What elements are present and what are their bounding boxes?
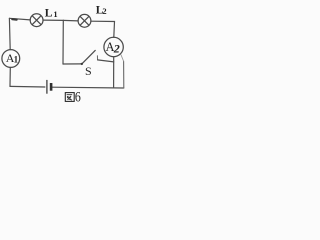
lamp L2	[78, 14, 91, 27]
ammeter A1	[2, 50, 20, 68]
svg-text:L: L	[45, 7, 53, 19]
switch S blade	[82, 50, 95, 64]
lamp L1	[30, 14, 43, 27]
svg-text:S: S	[85, 64, 92, 78]
wire node vertical to switch	[62, 20, 64, 64]
figure label 图6	[65, 93, 74, 102]
svg-text:2: 2	[102, 6, 106, 16]
wire faint A2 to right edge	[121, 55, 124, 61]
ammeter A2	[104, 37, 123, 56]
wire bottom left to battery	[10, 85, 45, 88]
wire top-left horizontal	[9, 18, 30, 20]
svg-text:6: 6	[75, 88, 81, 104]
switch right contact tick	[96, 56, 98, 60]
svg-text:1: 1	[53, 9, 57, 19]
battery long plate	[46, 80, 48, 94]
wire node to L2	[63, 19, 78, 22]
wire left vertical upper	[8, 18, 11, 49]
battery cell	[47, 80, 51, 94]
switch pivot dot	[81, 63, 83, 65]
wire left vertical lower	[9, 68, 11, 87]
wire switch right segment to A2 lead	[98, 60, 114, 62]
wire L2 to top-right corner	[91, 21, 115, 37]
junction blob top-left	[12, 18, 16, 21]
wire A2 bottom vertical	[113, 57, 115, 88]
wire switch left segment	[63, 63, 82, 65]
wire right edge vertical	[123, 61, 125, 88]
battery short plate	[50, 83, 53, 91]
wire battery to bottom-right corner	[52, 86, 123, 89]
svg-text:1: 1	[14, 54, 19, 64]
wire L1 to node	[43, 19, 63, 21]
svg-text:2: 2	[113, 41, 120, 55]
